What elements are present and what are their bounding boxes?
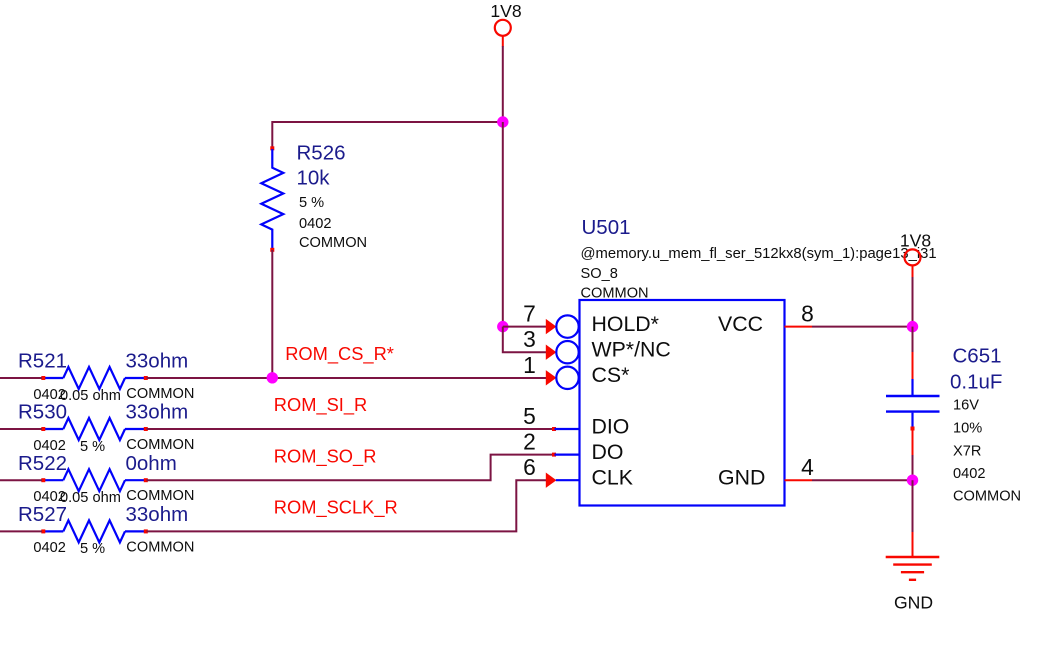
svg-text:ROM_CS_R*: ROM_CS_R* (285, 343, 394, 365)
wire: R526 top lead from corner (271, 121, 273, 149)
wire: left stub row1 (0, 377, 42, 379)
svg-text:R521: R521 (18, 350, 67, 373)
svg-text:10k: 10k (297, 166, 331, 189)
svg-text:8: 8 (801, 301, 814, 327)
svg-text:DIO: DIO (592, 414, 630, 438)
svg-text:5 %: 5 % (299, 195, 324, 211)
pin 4 stub (red) (785, 479, 813, 481)
svg-text:R526: R526 (297, 142, 346, 165)
svg-text:33ohm: 33ohm (126, 401, 189, 424)
svg-text:16V: 16V (953, 397, 979, 413)
wire: VCC pin to right column (812, 326, 913, 328)
wire: left stub row3 (0, 479, 42, 481)
svg-text:X7R: X7R (953, 443, 981, 459)
wire: capacitor to GND junction (912, 455, 914, 480)
wire: net ROM_SO_R jog up to DO pin (147, 455, 553, 481)
capacitor C651 (886, 345, 1021, 505)
pin 5 stub (555, 428, 580, 430)
resistor R522 (18, 452, 194, 506)
svg-text:33ohm: 33ohm (126, 350, 189, 373)
wire: down from top tee to HOLD* tee (502, 122, 504, 327)
svg-text:5 %: 5 % (80, 439, 105, 455)
pin tick R526 top (270, 146, 274, 150)
node junction at top tee (497, 116, 508, 127)
svg-text:COMMON: COMMON (953, 488, 1021, 504)
svg-text:WP*/NC: WP*/NC (592, 338, 671, 362)
pin tick R526 bottom (270, 248, 274, 252)
svg-text:1V8: 1V8 (900, 230, 932, 250)
svg-text:R522: R522 (18, 452, 67, 475)
wire: GND pin to right column (812, 479, 913, 481)
op-amp U501 annotation block (581, 216, 937, 301)
svg-text:DO: DO (592, 440, 624, 464)
pin tick C651 bottom (911, 427, 915, 431)
ground symbol (886, 557, 940, 613)
capacitor C651 top lead (red) (912, 352, 914, 380)
svg-text:CLK: CLK (592, 466, 633, 490)
svg-text:COMMON: COMMON (126, 437, 194, 453)
wire: tee to HOLD* pin (503, 326, 547, 328)
pin 8 stub (red) (785, 326, 813, 328)
svg-text:0.05 ohm: 0.05 ohm (60, 388, 121, 404)
capacitor C651 bottom lead (red) (912, 428, 914, 455)
node junction at HOLD* tee (497, 321, 508, 332)
svg-text:5 %: 5 % (80, 541, 105, 557)
svg-text:GND: GND (718, 466, 765, 490)
svg-text:1: 1 (523, 352, 536, 378)
svg-text:33ohm: 33ohm (126, 503, 189, 526)
svg-text:C651: C651 (953, 345, 1002, 368)
resistor R527 (18, 503, 194, 557)
svg-text:SO_8: SO_8 (581, 266, 618, 282)
wire: left stub row4 (0, 530, 42, 532)
pin 5 tick (552, 427, 556, 431)
wire: tee down and right to WP*/NC pin (503, 327, 547, 353)
wire: 1V8 stem down to top junction (502, 46, 504, 122)
svg-text:5: 5 (523, 403, 536, 429)
svg-text:0ohm: 0ohm (126, 452, 177, 475)
pin 3 bubble (556, 341, 578, 363)
svg-text:0402: 0402 (299, 216, 331, 232)
wire: horizontal to R526 branch (272, 121, 503, 123)
svg-text:2: 2 (523, 429, 536, 455)
svg-text:0.1uF: 0.1uF (950, 370, 1002, 393)
svg-text:7: 7 (523, 301, 536, 327)
svg-text:10%: 10% (953, 421, 982, 437)
wire: R526 bottom to CS net junction (271, 250, 273, 378)
pin 6 stub (556, 479, 580, 481)
resistor R530 (18, 401, 194, 455)
wire: GND junction down (912, 480, 914, 532)
svg-text:R530: R530 (18, 401, 67, 424)
pin 2 tick (552, 453, 556, 457)
svg-text:U501: U501 (582, 216, 631, 239)
node junction VCC tee (907, 321, 918, 332)
svg-text:ROM_SCLK_R: ROM_SCLK_R (274, 497, 398, 519)
svg-text:@memory.u_mem_fl_ser_512kx8(sy: @memory.u_mem_fl_ser_512kx8(sym_1):page1… (581, 246, 937, 262)
svg-text:0402: 0402 (953, 466, 985, 482)
svg-text:ROM_SI_R: ROM_SI_R (274, 394, 367, 416)
svg-text:1V8: 1V8 (490, 1, 522, 21)
wire: net ROM_SI_R to DIO pin (147, 428, 553, 430)
pin 1 arrowhead (546, 370, 557, 385)
svg-text:ROM_SO_R: ROM_SO_R (274, 445, 377, 467)
svg-text:COMMON: COMMON (126, 539, 194, 555)
svg-text:CS*: CS* (592, 363, 630, 387)
node junction R526/CS net (267, 372, 278, 383)
svg-text:0.05 ohm: 0.05 ohm (60, 490, 121, 506)
svg-text:GND: GND (894, 593, 933, 613)
power symbol 1V8 (top) (490, 1, 522, 47)
svg-text:6: 6 (523, 454, 536, 480)
pin 3 arrowhead (546, 345, 557, 360)
svg-text:3: 3 (523, 326, 536, 352)
pin 7 bubble (556, 315, 578, 337)
svg-text:4: 4 (801, 454, 814, 480)
ground lead (red) (912, 532, 914, 557)
pin 6 arrowhead (546, 473, 557, 488)
resistor R526 (261, 142, 367, 252)
wire: net ROM_CS_R* to CS* pin (147, 377, 547, 379)
IC U501 body (580, 300, 785, 506)
pin 7 arrowhead (546, 319, 557, 334)
svg-text:0402: 0402 (33, 540, 65, 556)
wire: left stub row2 (0, 428, 42, 430)
svg-text:COMMON: COMMON (126, 488, 194, 504)
svg-text:R527: R527 (18, 503, 67, 526)
pin 2 stub (555, 454, 580, 456)
svg-text:COMMON: COMMON (126, 386, 194, 402)
resistor R521 (18, 350, 194, 404)
node junction GND tee (907, 475, 918, 486)
power symbol 1V8 (right) (900, 230, 932, 277)
wire: net ROM_SCLK_R jog up to CLK pin (147, 480, 547, 531)
pin 1 bubble (556, 367, 578, 389)
svg-text:VCC: VCC (718, 312, 763, 336)
wire: VCC junction down to capacitor (912, 327, 914, 352)
svg-text:HOLD*: HOLD* (592, 312, 659, 336)
wire: right 1V8 stem to VCC junction (912, 277, 914, 327)
svg-text:COMMON: COMMON (299, 235, 367, 251)
